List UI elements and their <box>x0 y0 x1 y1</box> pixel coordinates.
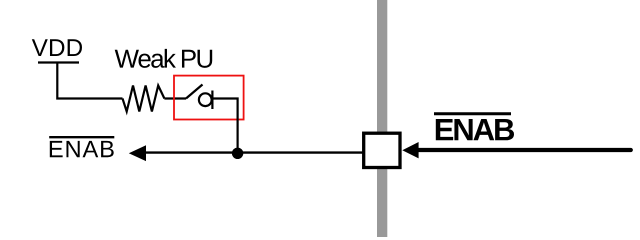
switch SW contact bar <box>211 91 213 110</box>
wire external ENAB <box>417 148 631 152</box>
VDD rail bar <box>38 61 79 63</box>
net label ENAB (external) <box>436 119 514 140</box>
arrowhead to ENAB (internal) <box>129 145 146 161</box>
wire switch to node <box>212 99 237 153</box>
wire VDD to resistor <box>57 63 122 99</box>
red highlight box around switch <box>174 76 244 120</box>
junction node <box>232 148 243 159</box>
switch SW blade <box>186 85 203 99</box>
net label ENAB (external) overline <box>434 112 511 115</box>
resistor R (weak pull-up) <box>123 86 165 112</box>
arrowhead into pad <box>402 142 418 158</box>
switch SW contact circle <box>199 93 212 106</box>
net label ENAB (internal) overline <box>49 136 114 138</box>
chip boundary bar <box>377 0 387 237</box>
wire resistor to switch <box>164 97 186 99</box>
label Weak PU <box>115 49 212 68</box>
power label VDD <box>32 39 82 56</box>
wire node to pad <box>145 151 364 153</box>
net label ENAB (internal) <box>50 141 114 157</box>
pad P1 (pin square) <box>364 133 400 167</box>
